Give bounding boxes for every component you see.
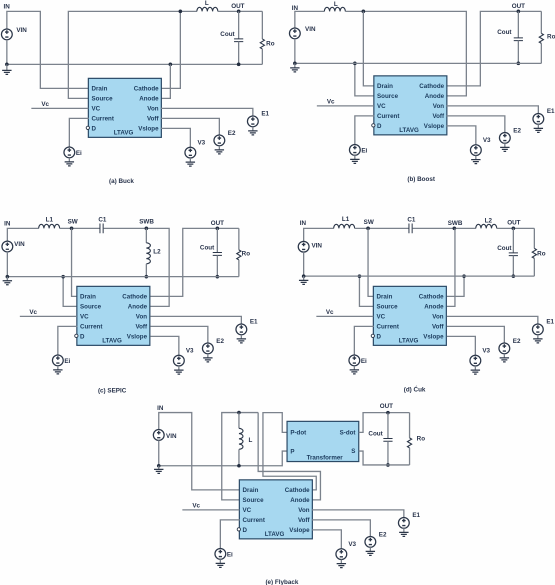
wire: ground stub: [6, 64, 8, 70]
voltage source Ei: [64, 147, 75, 158]
wire: ground stub: [158, 466, 160, 470]
wire: SW rail to C1: [355, 227, 409, 229]
voltage source Ei: [215, 548, 226, 559]
wire: ground stub: [6, 277, 8, 281]
ground symbol V3: [186, 162, 195, 166]
wire: ground rail: [295, 62, 541, 64]
wire: VIN- down to ground rail: [6, 40, 8, 65]
wire: SW rail to Anode pin riser: [345, 11, 466, 96]
voltage source VIN: [298, 241, 309, 252]
voltage source E2: [214, 135, 225, 146]
wire: SW rail down to Anode pin: [258, 413, 320, 500]
wire: VC input: [31, 107, 88, 109]
resistor Ro: [407, 438, 411, 448]
junction: Cathode ground node: [462, 274, 466, 278]
wire: E1 ground stub: [537, 124, 539, 128]
svg-text:Transformer: Transformer: [307, 455, 344, 462]
voltage source Ei: [349, 144, 360, 155]
ground symbol: [154, 469, 163, 473]
wire: OUT rail down to Ro: [533, 228, 535, 248]
junction: L top node: [237, 411, 241, 415]
junction: VIN ground node: [5, 63, 9, 67]
svg-text:OUT: OUT: [380, 403, 393, 410]
ground symbol E2: [500, 358, 509, 362]
svg-text:IN: IN: [300, 220, 307, 227]
wire: VC input: [316, 315, 373, 317]
wire: Current pin down to Ei: [220, 520, 240, 549]
wire: VC input: [182, 509, 239, 511]
ground symbol Ei: [53, 370, 62, 374]
svg-text:Ro: Ro: [417, 436, 426, 443]
junction: VIN ground node: [6, 275, 10, 279]
voltage source Ei: [52, 355, 63, 366]
wire: OUT node down to Cout: [216, 228, 218, 252]
voltage source E1: [398, 517, 409, 528]
wire: Von pin to E1: [447, 316, 538, 324]
wire: VIN+ up to IN rail and down to Drain pin: [7, 11, 89, 88]
capacitor C1: [409, 223, 412, 233]
svg-text:OUT: OUT: [507, 220, 520, 227]
svg-text:E2: E2: [379, 532, 387, 539]
voltage source E2: [499, 343, 510, 354]
resistor Ro: [539, 33, 543, 43]
junction: SW node: [179, 10, 183, 14]
ground symbol Ei: [65, 162, 74, 166]
wire: OUT node down to Cout: [512, 228, 514, 253]
junction: SW node: [366, 227, 370, 231]
wire: Vslope pin to V3: [312, 530, 342, 549]
voltage source VIN: [1, 29, 12, 40]
svg-text:E2: E2: [513, 128, 521, 135]
ground symbol V3: [471, 370, 480, 374]
svg-text:L2: L2: [485, 217, 493, 224]
wire: VIN+ up to IN rail down to Drain pin: [159, 413, 240, 490]
wire: Von pin to E1: [161, 108, 253, 116]
wire: L top stub: [238, 413, 240, 429]
wire: VIN+ up to IN rail to inductor: [295, 11, 325, 28]
junction: Source ground node: [61, 275, 65, 279]
wire: ground rail: [304, 275, 535, 277]
wire: E2 ground stub: [218, 146, 220, 150]
wire: Current pin down to Ei: [69, 118, 89, 147]
wire: Von pin to E1: [150, 316, 241, 324]
wire: Voff pin to E2: [447, 326, 505, 343]
inductor L2: [476, 224, 497, 228]
ground symbol Ei: [350, 159, 359, 163]
wire: Source pin riser to ground rail: [355, 63, 375, 96]
capacitor Cout: [234, 39, 243, 42]
svg-text:VIN: VIN: [16, 27, 27, 34]
voltage source E1: [236, 324, 247, 335]
junction: OUT node: [386, 411, 390, 415]
voltage source E2: [202, 343, 213, 354]
wire: E1 ground stub: [403, 528, 405, 532]
junction: OUT node: [237, 10, 241, 14]
ground symbol V3: [174, 370, 183, 374]
svg-text:SWB: SWB: [448, 220, 463, 227]
svg-text:C1: C1: [407, 216, 416, 223]
svg-text:C1: C1: [98, 217, 107, 224]
capacitor Cout: [383, 438, 392, 441]
svg-text:(a) Buck: (a) Buck: [109, 178, 134, 185]
wire: Cout to ground rail: [216, 255, 218, 276]
wire: S pin to return rail: [359, 451, 410, 465]
transformer T1: [287, 421, 359, 461]
voltage source E1: [247, 116, 258, 127]
ground symbol E2: [203, 358, 212, 362]
wire: E2 ground stub: [503, 354, 505, 358]
wire: C1 to SWB rail to L2: [413, 227, 476, 229]
ground symbol Ei: [216, 563, 225, 567]
capacitor Cout: [514, 38, 523, 41]
svg-text:Cout: Cout: [497, 29, 512, 36]
wire: V3 ground stub: [178, 366, 180, 370]
svg-text:VIN: VIN: [311, 243, 322, 250]
junction: Cout ground node: [512, 274, 516, 278]
ground symbol E1: [248, 131, 257, 135]
inductor L1: [39, 224, 60, 228]
svg-text:V3: V3: [186, 347, 194, 354]
svg-text:IN: IN: [4, 221, 11, 228]
wire: OUT rail down to Ro: [261, 11, 263, 39]
ground symbol E2: [215, 150, 224, 154]
voltage source VIN: [153, 430, 164, 441]
wire: Voff pin to E2: [312, 520, 371, 537]
ground symbol E1: [534, 128, 543, 132]
ground symbol: [290, 68, 299, 72]
wire: L2 to OUT rail to Ro corner: [497, 227, 535, 229]
voltage source V3: [470, 145, 481, 156]
junction: VIN ground node: [293, 62, 297, 66]
svg-text:Vc: Vc: [327, 99, 335, 106]
wire: E2 ground stub: [369, 547, 371, 551]
wire: V3 ground stub: [475, 156, 477, 160]
svg-text:L: L: [248, 437, 252, 444]
svg-text:(e) Flyback: (e) Flyback: [265, 579, 298, 585]
wire: Source pin riser to ground rail: [359, 276, 373, 306]
wire: E2 ground stub: [207, 354, 209, 358]
wire: Cout to ground rail: [238, 42, 240, 65]
wire: VIN- down to ground rail: [294, 39, 296, 64]
wire: Drain pin riser to SW node: [368, 228, 374, 296]
wire: Source pin riser to ground rail: [63, 277, 77, 307]
junction: OUT node: [517, 10, 521, 14]
svg-text:Ei: Ei: [361, 147, 367, 154]
wire: VC input: [20, 315, 77, 317]
svg-text:(c) SEPIC: (c) SEPIC: [98, 387, 127, 394]
wire: OUT node down to Cout: [238, 11, 240, 38]
wire: Voff pin to E2: [150, 326, 208, 343]
wire: SW rail to C1: [60, 227, 100, 229]
wire: L bottom to ground rail: [238, 449, 240, 465]
wire: Voff pin to E2: [446, 116, 505, 133]
wire: Cathode pin riser to OUT rail: [150, 228, 239, 296]
svg-text:Vc: Vc: [41, 101, 49, 108]
inductor L: [197, 7, 218, 11]
ground symbol E1: [237, 339, 246, 343]
wire: Current pin down to Ei: [58, 326, 78, 355]
capacitor Cout: [509, 253, 518, 256]
junction: Anode ground node: [169, 63, 173, 67]
wire: VIN- down to ground rail: [158, 440, 160, 465]
svg-text:OUT: OUT: [211, 220, 224, 227]
wire: V3 ground stub: [340, 560, 342, 564]
wire: C1 to SWB rail to Anode pin riser: [104, 228, 170, 306]
ground symbol V3: [471, 160, 480, 164]
wire: E2 ground stub: [504, 143, 506, 147]
voltage source V3: [173, 355, 184, 366]
junction: Source ground node: [353, 62, 357, 66]
LTAVG block U1: [86, 78, 161, 137]
svg-text:Cout: Cout: [497, 245, 512, 252]
wire: ground rail to transformer P pin: [159, 451, 288, 466]
junction: VIN ground node: [157, 464, 161, 468]
junction: Cout return node: [386, 463, 390, 467]
svg-text:OUT: OUT: [231, 3, 244, 10]
svg-text:V3: V3: [197, 139, 205, 146]
wire: OUT node down to Cout: [387, 413, 389, 439]
svg-text:SWB: SWB: [139, 219, 154, 226]
wire: VC input: [317, 105, 374, 107]
svg-text:OUT: OUT: [512, 3, 525, 10]
wire: Drain pin riser to SW node: [72, 228, 78, 296]
svg-text:L1: L1: [46, 217, 54, 224]
wire: E1 ground stub: [240, 335, 242, 339]
svg-text:Ro: Ro: [547, 34, 555, 41]
wire: Anode pin riser to ground rail: [161, 64, 171, 98]
junction: OUT node: [512, 227, 516, 231]
voltage source VIN: [2, 241, 13, 252]
voltage source V3: [185, 147, 196, 158]
wire: Ro to ground rail: [533, 258, 535, 276]
svg-text:L: L: [205, 0, 209, 7]
wire: Voff pin to E2: [161, 118, 220, 135]
ground symbol V3: [337, 564, 346, 568]
svg-text:Ro: Ro: [266, 40, 275, 47]
svg-text:S-dot: S-dot: [340, 430, 356, 437]
inductor L2: [146, 243, 150, 264]
svg-text:SW: SW: [364, 219, 374, 226]
wire: Cathode pin riser to ground rail: [447, 276, 464, 296]
wire: Cout to ground rail: [512, 256, 514, 276]
svg-text:E1: E1: [261, 111, 269, 118]
ground symbol E2: [500, 147, 509, 151]
wire: Vslope pin to V3: [150, 336, 179, 355]
voltage source VIN: [289, 28, 300, 39]
wire: V3 ground stub: [474, 366, 476, 370]
svg-text:E2: E2: [216, 338, 224, 345]
voltage source E2: [499, 132, 510, 143]
svg-text:IN: IN: [4, 4, 11, 11]
svg-text:VIN: VIN: [14, 241, 25, 248]
wire: Von pin to E1: [312, 510, 404, 518]
svg-text:Cout: Cout: [368, 431, 383, 438]
junction: Cout ground node: [216, 275, 220, 279]
wire: Ro to return rail: [409, 448, 411, 465]
wire: Ro to ground rail: [238, 260, 240, 277]
wire: VIN- down to ground rail: [6, 252, 8, 277]
resistor Ro: [532, 248, 536, 258]
wire: SWB down to L2: [145, 228, 147, 243]
ground symbol: [3, 281, 12, 285]
wire: Cout to ground rail: [517, 41, 519, 64]
svg-text:Ei: Ei: [64, 358, 70, 365]
svg-text:Vc: Vc: [192, 503, 200, 510]
inductor L: [239, 428, 243, 449]
wire: OUT rail down to Ro: [409, 413, 411, 438]
wire: Anode pin riser to SWB node: [447, 228, 455, 306]
resistor Ro: [260, 39, 264, 49]
LTAVG block U1: [75, 286, 150, 345]
wire: OUT rail down to Ro: [238, 228, 240, 250]
wire: Cout to return rail: [387, 441, 389, 465]
wire: Ro to ground rail: [540, 43, 542, 63]
voltage source V3: [336, 549, 347, 560]
resistor Ro: [237, 250, 241, 260]
wire: Drain pin riser to SW node: [363, 11, 374, 86]
wire: S-dot pin up to OUT rail: [359, 413, 410, 433]
svg-text:V3: V3: [482, 347, 490, 354]
junction: Source ground node: [358, 274, 362, 278]
svg-text:Ro: Ro: [242, 251, 251, 258]
svg-text:Ei: Ei: [76, 150, 82, 157]
wire: OUT node down to Cout: [517, 11, 519, 37]
wire: ground stub: [294, 63, 296, 68]
ground symbol Ei: [350, 370, 359, 374]
wire: ground rail: [7, 276, 239, 278]
junction: OUT node: [216, 227, 220, 231]
junction: Cout ground node: [237, 63, 241, 67]
voltage source E2: [365, 536, 376, 547]
ground symbol E1: [533, 339, 542, 343]
ground symbol: [299, 280, 308, 284]
LTAVG block U1: [371, 286, 446, 345]
junction: SWB node: [145, 227, 149, 231]
svg-text:SW: SW: [68, 219, 78, 226]
wire: Ei ground stub: [57, 366, 59, 370]
wire: L2 to ground rail: [145, 264, 147, 277]
svg-text:E1: E1: [250, 319, 258, 326]
wire: P-dot rail down to Cathode pin: [263, 413, 316, 490]
svg-text:E2: E2: [228, 130, 236, 137]
wire: Current pin down to Ei: [354, 326, 374, 355]
wire: VIN+ up to IN rail to L1: [304, 228, 334, 241]
svg-text:E2: E2: [513, 338, 521, 345]
svg-text:Ei: Ei: [361, 358, 367, 365]
wire: Ei ground stub: [219, 559, 221, 563]
svg-text:V3: V3: [483, 137, 491, 144]
svg-text:V3: V3: [348, 541, 356, 548]
svg-text:E1: E1: [412, 512, 420, 519]
svg-text:Ei: Ei: [227, 551, 233, 558]
wire: Current pin down to Ei: [355, 116, 375, 145]
voltage source V3: [470, 355, 481, 366]
svg-text:VIN: VIN: [166, 433, 177, 440]
svg-text:Ro: Ro: [537, 250, 546, 257]
capacitor Cout: [213, 253, 222, 256]
wire: V3 ground stub: [189, 158, 191, 162]
wire: Cathode pin riser to SW node: [161, 11, 181, 88]
wire: OUT rail down to Ro: [540, 11, 542, 33]
junction: SW node: [362, 10, 366, 14]
junction: L2 ground node: [145, 275, 149, 279]
wire: Vslope pin to V3: [447, 336, 476, 355]
svg-text:VIN: VIN: [305, 26, 316, 33]
svg-text:P-dot: P-dot: [290, 430, 306, 437]
svg-text:Cout: Cout: [220, 31, 235, 38]
wire: Von pin to E1: [446, 106, 538, 114]
wire: E1 ground stub: [252, 127, 254, 131]
svg-text:IN: IN: [157, 405, 164, 412]
svg-text:S: S: [351, 448, 355, 455]
junction: Cout ground node: [517, 62, 521, 66]
wire: E1 ground stub: [537, 335, 539, 339]
voltage source E1: [532, 324, 543, 335]
inductor L: [324, 7, 345, 11]
svg-text:Cout: Cout: [200, 245, 215, 252]
wire: VIN- down to ground rail: [303, 252, 305, 276]
wire: Vslope pin to V3: [161, 128, 191, 147]
svg-text:L: L: [334, 1, 338, 8]
wire: ground stub: [303, 276, 305, 280]
LTAVG block U1: [372, 76, 447, 135]
wire: Ro to ground rail: [261, 49, 263, 64]
wire: Cathode pin riser to OUT rail: [446, 11, 541, 86]
wire: Source pin riser to SW rail: [222, 413, 258, 500]
svg-text:Vc: Vc: [29, 309, 37, 316]
svg-text:E1: E1: [547, 108, 555, 115]
svg-text:(b) Boost: (b) Boost: [407, 176, 436, 183]
svg-text:P: P: [290, 448, 294, 455]
wire: Ei ground stub: [68, 158, 70, 162]
svg-text:L1: L1: [342, 216, 350, 223]
voltage source E1: [533, 113, 544, 124]
junction: SWB node: [453, 227, 457, 231]
inductor L1: [334, 224, 355, 228]
ground symbol: [2, 70, 11, 74]
wire: VIN+ up to IN rail to L1: [7, 228, 38, 241]
junction: L ground node: [237, 464, 241, 468]
LTAVG block U1: [237, 480, 312, 539]
ground symbol E1: [399, 532, 408, 536]
junction: SW node: [70, 227, 74, 231]
wire: OUT rail: [218, 10, 263, 12]
junction: VIN ground node: [302, 274, 306, 278]
wire: Ei ground stub: [353, 366, 355, 370]
svg-text:(d) Ćuk: (d) Ćuk: [404, 385, 426, 394]
ground symbol E2: [366, 551, 375, 555]
wire: Source pin to SW rail: [68, 11, 197, 98]
svg-text:Vc: Vc: [326, 309, 334, 316]
capacitor C1: [100, 223, 103, 233]
svg-text:L2: L2: [153, 249, 161, 256]
wire: Ei ground stub: [354, 155, 356, 159]
wire: Vslope pin to V3: [446, 126, 476, 145]
voltage source Ei: [349, 355, 360, 366]
svg-text:E1: E1: [546, 319, 554, 326]
wire: ground rail: [7, 63, 263, 65]
